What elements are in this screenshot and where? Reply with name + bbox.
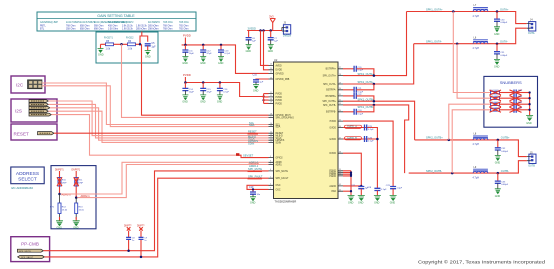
capacitor C12 xyxy=(200,44,212,57)
node ADR1-0 xyxy=(58,192,71,196)
svg-text:PVDD: PVDD xyxy=(276,100,283,102)
wire GVDD row 2 xyxy=(343,136,379,142)
capacitor C-PP2 (DNP) xyxy=(137,226,148,259)
capacitor C-OSC xyxy=(249,186,261,197)
IC left pin names xyxy=(276,64,295,191)
svg-text:0.7μF: 0.7μF xyxy=(223,92,229,94)
svg-text:U2: U2 xyxy=(274,58,278,62)
svg-text:PBTL: PBTL xyxy=(40,25,46,27)
svg-text:5: 5 xyxy=(270,177,271,179)
svg-text:SPK_OUTA-: SPK_OUTA- xyxy=(323,83,336,86)
svg-text:3: 3 xyxy=(270,188,271,190)
svg-text:0.68μF: 0.68μF xyxy=(500,55,508,57)
capacitor CS1 (DNP) xyxy=(510,90,530,96)
ground (C11) xyxy=(182,57,188,66)
svg-text:47μF: 47μF xyxy=(207,53,213,55)
svg-text:GPVDD: GPVDD xyxy=(276,73,285,75)
wire PP-CMB fault xyxy=(44,178,268,257)
svg-text:28: 28 xyxy=(339,74,341,76)
resistor R-AD3 xyxy=(50,194,68,219)
PP-CMB tag pin 2 xyxy=(18,255,45,259)
svg-text:2x4Ω 7Ω8kHz: 2x4Ω 7Ω8kHz xyxy=(66,22,81,24)
svg-text:GND: GND xyxy=(217,100,223,103)
capacitor CS3 (DNP) xyxy=(510,101,530,107)
capacitor C14 xyxy=(182,81,194,95)
ground (C14) xyxy=(182,95,188,104)
svg-text:0.1μF: 0.1μF xyxy=(381,189,387,191)
wire snubber tap 3 xyxy=(449,104,490,140)
ground (addr sel 1) xyxy=(56,217,63,229)
svg-text:SDIN: SDIN xyxy=(248,141,254,145)
svg-text:1st 500kHz: 1st 500kHz xyxy=(122,21,134,24)
svg-text:PVDD: PVDD xyxy=(276,97,283,99)
IC right pin stubs xyxy=(338,67,343,191)
svg-text:DNP: DNP xyxy=(518,102,523,104)
net label RESET xyxy=(248,130,259,134)
wire SPK1_OUTA- xyxy=(343,44,414,86)
power flag 3V3 xyxy=(269,15,275,31)
svg-text:765 Ohm: 765 Ohm xyxy=(179,28,189,30)
svg-text:958 Ohm: 958 Ohm xyxy=(94,25,104,27)
svg-text:SPK_OUTB-: SPK_OUTB- xyxy=(323,105,336,107)
svg-text:858 Ohm: 858 Ohm xyxy=(80,28,90,30)
RESET block xyxy=(11,124,57,140)
svg-text:BSTRPA+: BSTRPA+ xyxy=(326,68,337,71)
svg-text:1.0k: 1.0k xyxy=(106,47,111,50)
resistor R-AD4 xyxy=(75,198,85,219)
capacitor C16 xyxy=(217,81,230,95)
wire PP-CMB mute xyxy=(43,171,268,251)
svg-text:SPK1_OUTA-: SPK1_OUTA- xyxy=(426,40,442,44)
svg-text:29: 29 xyxy=(339,82,341,84)
svg-text:SPK1_OUTA+: SPK1_OUTA+ xyxy=(426,7,443,11)
svg-text:0.1μF: 0.1μF xyxy=(368,140,374,142)
ground (C30) xyxy=(494,27,500,36)
capacitor C-PP1 (DNP) xyxy=(124,226,135,252)
resistor RS3 (DNP) xyxy=(490,102,514,107)
svg-text:358 Ohm: 358 Ohm xyxy=(66,28,76,30)
capacitor C23 (bootstrap B-) xyxy=(343,105,374,116)
connector J4 (OUTA) xyxy=(527,19,536,35)
svg-text:GND: GND xyxy=(495,195,501,198)
gain setting table xyxy=(37,12,196,31)
svg-text:OUTA+: OUTA+ xyxy=(500,7,509,11)
net label SPK_FAULT xyxy=(248,175,263,179)
svg-text:GND: GND xyxy=(374,201,380,204)
svg-text:3.58 Ohm: 3.58 Ohm xyxy=(108,28,118,30)
wire PGND cluster xyxy=(343,171,352,196)
svg-text:DNP: DNP xyxy=(518,108,523,110)
svg-text:PAD: PAD xyxy=(331,190,336,193)
ground (C6) xyxy=(246,45,252,54)
svg-text:DNP: DNP xyxy=(62,182,67,184)
svg-text:OUTA: OUTA xyxy=(528,32,535,35)
svg-text:33: 33 xyxy=(339,103,341,105)
svg-text:GND: GND xyxy=(145,56,151,59)
connector J5 (OUTB) xyxy=(527,151,536,167)
net label SCL xyxy=(249,121,255,125)
wire snubber gnd bus xyxy=(528,91,530,115)
resistor RS1 (DNP) xyxy=(490,90,514,95)
wire I2C SDA xyxy=(42,86,269,127)
svg-text:OSC: OSC xyxy=(276,189,281,191)
svg-text:36: 36 xyxy=(339,126,341,128)
PDN jog symbol xyxy=(236,153,269,157)
net label SCLK xyxy=(248,137,255,141)
IC right pin names xyxy=(322,68,336,193)
svg-text:17: 17 xyxy=(270,116,272,118)
inductor L6 xyxy=(473,37,488,50)
svg-text:32: 32 xyxy=(339,100,341,102)
inductor L8 xyxy=(473,133,488,147)
svg-text:PVDD: PVDD xyxy=(276,103,283,105)
inductor L7 xyxy=(472,4,489,18)
IC left pin stubs xyxy=(269,64,274,190)
wire I2S 4 xyxy=(48,111,268,142)
junction node RC2 xyxy=(139,43,142,46)
op-amp U2 main IC body xyxy=(274,58,339,204)
net label SDIN xyxy=(248,141,254,145)
svg-text:DNP: DNP xyxy=(518,96,523,98)
svg-text:1.98 35.3k: 1.98 35.3k xyxy=(122,28,134,30)
capacitor C10 (CPVDD) xyxy=(253,74,269,85)
svg-text:10μF: 10μF xyxy=(189,92,195,94)
resistor R-AD1 (DNP) xyxy=(55,169,67,194)
svg-text:GND: GND xyxy=(358,201,364,204)
I2S block xyxy=(11,99,57,122)
capacitor C31 xyxy=(494,44,508,60)
RESET tag pin xyxy=(38,132,55,135)
svg-text:GND: GND xyxy=(246,50,252,53)
svg-text:PVDD: PVDD xyxy=(330,121,337,123)
ground (col 3) xyxy=(374,196,381,205)
svg-text:GND: GND xyxy=(526,122,532,125)
connector J-I2C xyxy=(28,80,43,89)
svg-text:15: 15 xyxy=(270,125,272,127)
svg-text:6: 6 xyxy=(270,169,271,171)
ground (C33) xyxy=(495,189,501,198)
svg-text:GND: GND xyxy=(200,100,206,103)
ADDRESS SELECT label box xyxy=(11,167,44,190)
svg-text:31: 31 xyxy=(339,94,341,96)
svg-text:AVDD: AVDD xyxy=(276,64,283,67)
svg-text:DNP??: DNP?? xyxy=(124,226,132,228)
svg-text:GND: GND xyxy=(250,202,256,205)
wire AVDD feed xyxy=(261,31,269,66)
svg-text:4.7μH: 4.7μH xyxy=(473,47,480,50)
svg-text:PP-CMB: PP-CMB xyxy=(21,242,39,247)
capacitor C32 xyxy=(495,140,509,156)
capacitor C21 (bootstrap A-) xyxy=(343,84,374,93)
wire PVDD right drop xyxy=(343,121,393,186)
svg-text:I2S: I2S xyxy=(15,108,22,113)
svg-text:4.7μH: 4.7μH xyxy=(473,143,480,146)
wire snubber tap 1 xyxy=(453,12,490,93)
capacitor CS2 (DNP) xyxy=(510,95,530,101)
svg-text:DNP: DNP xyxy=(79,182,84,184)
svg-text:768 Ohm: 768 Ohm xyxy=(163,28,173,30)
svg-text:20: 20 xyxy=(270,98,272,100)
svg-text:ADR1: ADR1 xyxy=(276,163,283,166)
OSC loop wires xyxy=(247,185,269,192)
svg-text:37: 37 xyxy=(339,137,341,139)
junction node RC1 xyxy=(120,43,123,46)
resistor RS4 (DNP) xyxy=(490,107,514,112)
ground (OSC) xyxy=(250,197,256,205)
svg-text:GND: GND xyxy=(182,62,188,65)
svg-text:GAIN SETTING TABLE: GAIN SETTING TABLE xyxy=(97,14,135,18)
svg-text:GND: GND xyxy=(390,201,396,204)
svg-text:BTL: BTL xyxy=(40,28,45,30)
svg-text:GND: GND xyxy=(268,50,274,53)
wire bank2 rail xyxy=(185,83,268,104)
svg-text:24: 24 xyxy=(270,72,272,74)
jumper J3 (DVDD) xyxy=(282,22,292,38)
ground (snubbers) xyxy=(526,116,533,125)
svg-text:OUTB: OUTB xyxy=(528,165,535,168)
svg-text:27: 27 xyxy=(339,67,341,69)
svg-text:47μF: 47μF xyxy=(207,92,213,94)
ground (C12) xyxy=(200,57,206,66)
wire PAD xyxy=(343,190,351,192)
wire DVDD right drop xyxy=(343,153,361,186)
svg-text:GND: GND xyxy=(494,65,500,68)
svg-text:0.1μF: 0.1μF xyxy=(358,113,364,115)
svg-text:BSTRPB+: BSTRPB+ xyxy=(325,96,336,98)
capacitor C20 (bootstrap A+) xyxy=(343,66,374,76)
net label LRCLK xyxy=(248,139,258,143)
capacitor C5 xyxy=(145,42,156,51)
svg-text:1.0k: 1.0k xyxy=(128,47,133,50)
svg-text:SELECT: SELECT xyxy=(18,176,37,182)
ground (RC box cap) xyxy=(145,51,151,59)
svg-text:SNUBBERS: SNUBBERS xyxy=(500,80,522,85)
svg-text:7Ω8 Ohm: 7Ω8 Ohm xyxy=(163,22,173,24)
svg-text:I2C: I2C xyxy=(16,83,24,88)
capacitor C6 xyxy=(246,31,257,45)
svg-text:38: 38 xyxy=(339,152,341,154)
PVDD net label bank1 xyxy=(183,34,191,45)
svg-text:SDA: SDA xyxy=(249,123,255,127)
svg-text:CPVDD_FBB: CPVDD_FBB xyxy=(276,79,290,81)
svg-text:30: 30 xyxy=(339,88,341,90)
svg-text:7: 7 xyxy=(270,163,271,165)
capacitor C7 xyxy=(268,31,279,45)
RC divider box (teal) xyxy=(96,32,158,63)
ground (C15) xyxy=(200,95,206,104)
svg-text:I2C ADDR#0x60: I2C ADDR#0x60 xyxy=(11,186,33,190)
ground (C31) xyxy=(494,59,500,68)
svg-text:SPK_OUTA+: SPK_OUTA+ xyxy=(323,75,337,78)
wire ADR1 xyxy=(61,162,269,194)
svg-text:GND: GND xyxy=(495,162,501,165)
svg-text:GND: GND xyxy=(253,89,259,92)
svg-text:SDIN: SDIN xyxy=(276,142,282,144)
svg-text:35: 35 xyxy=(339,119,341,121)
PP-CMB block xyxy=(11,237,50,262)
wire output B+ bottom xyxy=(415,136,527,157)
capacitor C28 xyxy=(367,187,387,196)
ground (C13) xyxy=(218,57,224,66)
svg-text:1μF: 1μF xyxy=(274,41,278,43)
svg-text:GND: GND xyxy=(57,226,63,229)
wire GVDD drop xyxy=(142,44,269,115)
svg-text:SPK_FAULT: SPK_FAULT xyxy=(248,175,263,179)
svg-text:1n: 1n xyxy=(132,240,134,242)
svg-text:GVDD_B: GVDD_B xyxy=(347,137,357,140)
svg-text:ADDRESS: ADDRESS xyxy=(16,171,39,177)
capacitor C22 (bootstrap B+) xyxy=(343,93,374,101)
net label ADR1 xyxy=(249,160,260,164)
svg-text:AGND: AGND xyxy=(329,185,336,188)
svg-text:285 kOhm: 285 kOhm xyxy=(148,25,159,27)
node ADR2-1 / wire out xyxy=(75,194,90,199)
svg-text:SPK_FAULT: SPK_FAULT xyxy=(276,177,289,180)
wire GVDD row 1 xyxy=(343,125,377,189)
svg-text:OUTA-: OUTA- xyxy=(500,40,508,44)
svg-text:298 kOhm: 298 kOhm xyxy=(148,28,159,30)
svg-text:DNP??: DNP?? xyxy=(137,226,145,228)
resistor R-GD2 xyxy=(126,37,136,51)
svg-text:15.0k: 15.0k xyxy=(62,210,68,212)
net label SPK_MUTE xyxy=(248,167,263,171)
svg-text:42: 42 xyxy=(339,174,341,176)
svg-text:SPK_MUTE: SPK_MUTE xyxy=(19,251,31,253)
svg-text:PVDD: PVDD xyxy=(183,73,191,77)
capacitor C11 xyxy=(182,44,194,57)
svg-text:898 Ohm: 898 Ohm xyxy=(94,28,104,30)
svg-text:OUTB+: OUTB+ xyxy=(501,136,510,140)
svg-text:768 Ohm: 768 Ohm xyxy=(66,25,76,27)
svg-text:10: 10 xyxy=(270,141,272,143)
svg-text:C19: C19 xyxy=(249,186,254,189)
net label ADR2 xyxy=(249,164,259,168)
svg-text:SPK_MUTE: SPK_MUTE xyxy=(248,167,262,171)
svg-text:SPK_MUTE: SPK_MUTE xyxy=(276,171,289,173)
svg-text:3V3DD: 3V3DD xyxy=(248,26,256,30)
svg-text:GND: GND xyxy=(494,33,500,36)
svg-text:GVDD_A: GVDD_A xyxy=(347,126,357,129)
wire 3V3DD rail xyxy=(247,26,282,31)
ground (col 2) xyxy=(358,196,365,205)
svg-text:SPK1_OUTA-: SPK1_OUTA- xyxy=(358,80,374,84)
svg-text:0.7μF: 0.7μF xyxy=(224,53,230,55)
inductor L9 xyxy=(473,166,488,179)
svg-text:GND: GND xyxy=(98,54,104,57)
svg-text:GAIN/FREQ JMP: GAIN/FREQ JMP xyxy=(40,21,58,24)
wire bank1 rail xyxy=(182,45,269,74)
svg-text:SPK1_OUTA+: SPK1_OUTA+ xyxy=(358,72,375,76)
svg-text:1μF: 1μF xyxy=(151,46,156,49)
capacitor CS4 (DNP) xyxy=(510,107,530,113)
svg-text:1n: 1n xyxy=(144,240,146,242)
svg-text:26: 26 xyxy=(270,64,272,66)
capacitor C27 xyxy=(351,185,369,195)
svg-text:3.9k 35.3k: 3.9k 35.3k xyxy=(122,25,133,27)
svg-text:DVDDx: DVDDx xyxy=(283,35,292,38)
wire SPK2_OUTB+ xyxy=(343,97,415,139)
wire ADR2 xyxy=(77,165,268,198)
ground (C7) xyxy=(268,45,274,54)
svg-text:19: 19 xyxy=(270,102,272,104)
svg-text:43: 43 xyxy=(339,184,341,186)
svg-text:BSTRPA-: BSTRPA- xyxy=(326,89,336,92)
resistor RS2 (DNP) xyxy=(490,96,514,101)
wire DVDD feed xyxy=(264,31,269,70)
I2C block xyxy=(11,76,45,93)
svg-text:0.68μF: 0.68μF xyxy=(501,184,509,186)
svg-text:GND: GND xyxy=(182,100,188,103)
svg-text:1.0μF: 1.0μF xyxy=(397,187,403,189)
svg-text:SEVSET: SEVSET xyxy=(243,153,254,157)
svg-text:PVDD: PVDD xyxy=(276,94,283,96)
net label MCLK xyxy=(248,134,256,138)
svg-text:0.68μF: 0.68μF xyxy=(501,151,509,153)
wire AGND xyxy=(343,185,361,187)
svg-text:DVDD: DVDD xyxy=(329,153,336,155)
svg-text:0.68μF: 0.68μF xyxy=(500,22,508,24)
svg-text:285 kOhm: 285 kOhm xyxy=(136,28,147,30)
wire I2S 3 xyxy=(50,108,269,140)
svg-text:GPIO2: GPIO2 xyxy=(276,158,284,160)
net label SDA xyxy=(249,123,255,127)
svg-text:DVDD: DVDD xyxy=(276,70,283,72)
I2S tag pins xyxy=(29,100,51,116)
svg-text:1μF: 1μF xyxy=(252,41,256,43)
svg-text:4.7μH: 4.7μH xyxy=(473,176,480,179)
wire I2S 5 / PDN xyxy=(51,115,237,156)
svg-text:SPK_OUTB+: SPK_OUTB+ xyxy=(322,101,336,103)
wire output B- xyxy=(409,161,527,175)
svg-text:0.1μF: 0.1μF xyxy=(358,70,364,72)
wire snubber tap 4 xyxy=(452,110,490,173)
svg-text:SDA: SDA xyxy=(276,126,281,129)
svg-text:765 Ohm: 765 Ohm xyxy=(179,25,189,27)
svg-text:DNP: DNP xyxy=(518,90,523,92)
svg-text:SPK2_OUTB-: SPK2_OUTB- xyxy=(426,169,442,173)
capacitor C13 xyxy=(218,44,231,57)
address select component box xyxy=(51,166,96,229)
wire SPK2_OUTB- xyxy=(343,104,409,173)
svg-text:0.1μF: 0.1μF xyxy=(358,91,364,93)
wire table drop xyxy=(122,44,269,117)
svg-text:OUTB-: OUTB- xyxy=(501,169,509,173)
svg-text:15.0k: 15.0k xyxy=(79,210,85,212)
svg-text:GVDD: GVDD xyxy=(329,127,336,129)
svg-text:23: 23 xyxy=(270,77,272,79)
wire I2C SCL xyxy=(42,83,269,125)
svg-text:858 Ohm: 858 Ohm xyxy=(80,25,90,27)
PP-CMB tag pin 1 xyxy=(17,249,43,253)
svg-text:458 Ohm: 458 Ohm xyxy=(108,25,118,27)
wire RESET xyxy=(54,132,269,134)
snubbers box xyxy=(484,76,538,127)
svg-text:34: 34 xyxy=(339,110,341,112)
ground (C10) xyxy=(253,85,259,93)
svg-text:SPK1_OUTB+: SPK1_OUTB+ xyxy=(358,97,375,101)
svg-text:1.98 35.3k: 1.98 35.3k xyxy=(136,25,148,27)
capacitor C33 xyxy=(495,173,509,189)
svg-text:GND: GND xyxy=(73,226,79,229)
svg-text:7Ω8 Ohm: 7Ω8 Ohm xyxy=(179,22,189,24)
svg-text:10μF: 10μF xyxy=(189,53,195,55)
svg-text:SPK1_OUTB-: SPK1_OUTB- xyxy=(358,105,374,109)
ground (C16) xyxy=(217,95,223,104)
ground (col 4) xyxy=(390,196,397,205)
wire snubber tap 2 xyxy=(457,44,490,98)
svg-text:21: 21 xyxy=(270,95,272,97)
svg-text:0.1μF: 0.1μF xyxy=(368,129,374,131)
